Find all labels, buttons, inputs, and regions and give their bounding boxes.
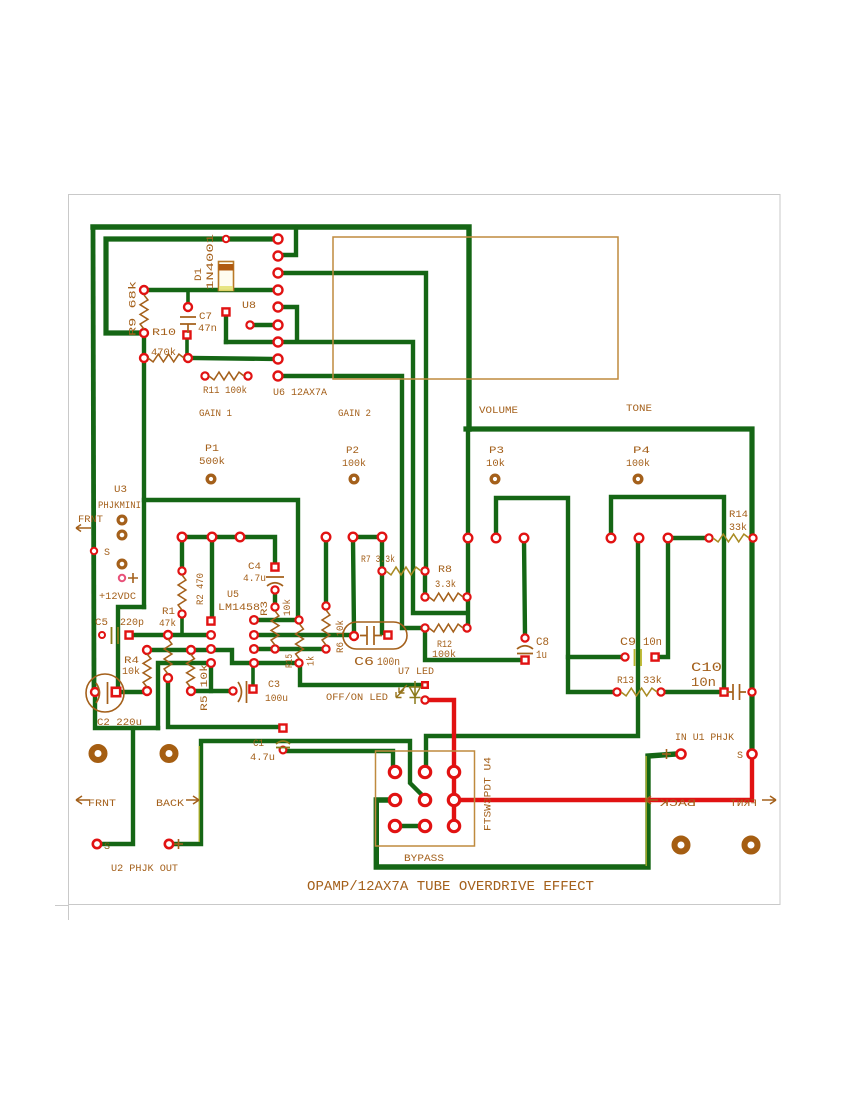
svg-text:C7: C7 (199, 312, 212, 323)
R13 right pad (657, 688, 664, 695)
wire P2 left to R6 top (324, 539, 328, 604)
U4 switch pad r1c2 (419, 766, 430, 777)
capacitor C9 plates (635, 649, 642, 666)
svg-text:U5: U5 (227, 590, 239, 601)
wire net1 top bus (93, 227, 469, 429)
U4 switch pad r1c1 (389, 766, 400, 777)
capacitor C7 plates (180, 317, 196, 333)
svg-text:33k: 33k (643, 675, 662, 687)
svg-text:10n: 10n (643, 637, 662, 649)
arrow FRNT bottom (76, 796, 90, 804)
U3 +12VDC pad (119, 575, 125, 581)
wire net2 second bus to U6 pin1 (106, 239, 278, 333)
U5 pin5 pad (250, 659, 258, 667)
capacitor C2 plates (96, 682, 108, 704)
capacitor C3 plates (238, 681, 247, 703)
svg-text:100k: 100k (626, 458, 650, 470)
wire U5 pin6 row to R6 bottom (255, 647, 324, 651)
C4 bottom pad (271, 586, 278, 593)
svg-text:C4: C4 (248, 562, 261, 573)
capacitor C1 plates (276, 741, 290, 748)
pad net2 mid (223, 236, 229, 242)
C1 square pad (279, 725, 286, 732)
wire switch top-mid up to P4 wiper (426, 541, 638, 769)
C6 left pad (350, 632, 358, 640)
svg-text:S: S (104, 842, 110, 853)
svg-text:VOLUME: VOLUME (479, 406, 518, 417)
svg-text:R7 3.3k: R7 3.3k (361, 554, 395, 566)
mounting hole (675, 839, 688, 852)
R4 top pad (143, 646, 151, 654)
wire C3 square up to U5 pin5 (251, 665, 255, 686)
svg-text:R2 470: R2 470 (196, 573, 207, 605)
wire P1 pad row (183, 535, 239, 539)
wire switch row3 link (399, 824, 422, 828)
svg-text:C10: C10 (691, 661, 722, 675)
U5 pin1 square pad (207, 618, 214, 625)
arrow FRNT top (76, 525, 91, 532)
page corner tick bottom (55, 905, 69, 907)
svg-text:100u: 100u (265, 694, 288, 705)
LED U7 diode symbol (410, 681, 421, 704)
wire OUT pad up and across to switch center (171, 741, 425, 844)
wire C7 square to R10 right pad (185, 337, 189, 355)
U6 pin4 pad (274, 286, 283, 295)
svg-text:47n: 47n (198, 324, 217, 335)
arrow BACK mirrored (645, 796, 658, 804)
U1 S pad (748, 750, 757, 759)
R15 bottom pad (295, 659, 302, 666)
svg-text:LM1458: LM1458 (218, 603, 260, 614)
wire x144 corner down to C2 square (118, 607, 144, 689)
svg-text:+12VDC: +12VDC (99, 592, 136, 603)
U2 S pad (93, 840, 101, 848)
U4 switch pad r3c2 (419, 820, 430, 831)
U4 switch pad r2c1 (389, 794, 400, 805)
P4 shaft mark (634, 475, 642, 483)
wire R15 bottom to LED (300, 665, 421, 685)
T mark IN pad (662, 749, 671, 759)
svg-text:U2 PHJK OUT: U2 PHJK OUT (111, 863, 178, 875)
wire U5 pin8 to R15 top (255, 618, 297, 622)
U6 pin1 pad (274, 235, 283, 244)
page corner tick left (68, 905, 70, 921)
wire U5 pin5 to R15 bottom (254, 661, 297, 665)
wire C2 square to R4 bottom (119, 690, 145, 694)
svg-text:R6 10k: R6 10k (335, 620, 347, 653)
svg-text:C9: C9 (620, 637, 636, 649)
R4 bottom pad (143, 687, 151, 695)
R3 bottom pad (271, 645, 278, 652)
svg-text:R13: R13 (617, 676, 634, 687)
svg-text:500k: 500k (199, 456, 225, 468)
R8 right pad (463, 593, 470, 600)
C5 left pad (99, 632, 105, 638)
R8 left pad (421, 593, 428, 600)
mounting hole (92, 747, 105, 760)
svg-text:4.7u: 4.7u (250, 753, 275, 764)
R10 right pad (184, 354, 192, 362)
R5 top pad (187, 646, 195, 654)
svg-text:GAIN 2: GAIN 2 (338, 409, 371, 420)
resistor R12 zigzag (429, 624, 463, 632)
C2 minus pad (91, 688, 99, 696)
svg-text:C8: C8 (536, 637, 549, 649)
R10 left pad (140, 354, 148, 362)
R2 bottom pad (178, 610, 185, 617)
wire C7 top stub (186, 291, 190, 305)
resistor R2 zigzag (178, 575, 186, 610)
R14 right pad (749, 534, 756, 541)
wire P1 middle to U5 pin1 (210, 539, 214, 619)
wire branch to S pad bottom-left (100, 728, 133, 844)
resistor R3 zigzag (271, 611, 279, 645)
C3 square pad (249, 686, 256, 693)
wire C2 minus down and across (95, 692, 158, 728)
wire D1 row U6 pin4 to R9 top (144, 288, 278, 292)
wire U8 square down to gate row (224, 314, 228, 342)
svg-text:33k: 33k (729, 522, 747, 534)
wire R9-R10 pad column (142, 333, 146, 607)
wire up to U5 pin4 row (158, 663, 209, 728)
P3 pad left (464, 534, 473, 543)
wire P3 wiper jog down to R13 left (496, 498, 614, 692)
svg-text:GAIN 1: GAIN 1 (199, 409, 232, 420)
U5 pin8 pad (250, 616, 258, 624)
U6 pin5 pad (274, 303, 283, 312)
wire R12 left down to C8 square (425, 630, 522, 660)
wire U8 pad to U6 pin6 (250, 323, 278, 327)
R12 left pad (421, 624, 428, 631)
wire gate row y342 to R12 right column (226, 342, 466, 613)
wire C10 right up (750, 692, 754, 697)
resistor R9 zigzag (140, 295, 148, 329)
C1 bottom pad (280, 747, 287, 754)
svg-text:IN U1 PHJK: IN U1 PHJK (675, 733, 734, 744)
svg-text:P4: P4 (633, 446, 650, 457)
U8 round pad (246, 321, 253, 328)
U4 switch pad r2c2 (419, 794, 430, 805)
R1 top pad (164, 631, 172, 639)
svg-text:R11 100k: R11 100k (203, 385, 247, 397)
capacitor C6 plates (360, 626, 382, 645)
resistor R10 zigzag (148, 354, 184, 362)
C7 square pad (183, 331, 190, 338)
U5 pin6 pad (250, 645, 258, 653)
U4 switch pad r1c3 (448, 766, 459, 777)
svg-text:OFF/ON LED: OFF/ON LED (326, 692, 388, 704)
P4 pad left (607, 534, 616, 543)
svg-text:100k: 100k (432, 649, 456, 661)
U6 pin6 pad (274, 321, 283, 330)
P1 pad right (236, 533, 245, 542)
wire C5 square to U5 pin2row (131, 633, 209, 637)
svg-text:3.3k: 3.3k (435, 579, 456, 591)
resistor R5 zigzag (187, 654, 195, 687)
svg-text:10k: 10k (486, 458, 505, 470)
U1 IN tip pad (677, 750, 686, 759)
P1 pad middle (208, 533, 217, 542)
svg-text:OPAMP/12AX7A TUBE OVERDRIVE EF: OPAMP/12AX7A TUBE OVERDRIVE EFFECT (307, 880, 594, 895)
svg-text:R9 68k: R9 68k (128, 281, 140, 336)
U6 pin9 pad (274, 372, 283, 381)
R9 bottom / R10 top pad (140, 329, 148, 337)
wire U6 pin8 to R10 right (190, 358, 278, 359)
wire switch mid-left to IN jack (376, 754, 676, 867)
resistor R1 zigzag (164, 639, 172, 674)
svg-text:R3: R3 (260, 601, 271, 616)
U7 LED round pad (421, 696, 428, 703)
P3 shaft mark (491, 475, 499, 483)
wire P2 right to R7 left / C6 right (380, 539, 384, 633)
U4 switch pad r2c3 (448, 794, 459, 805)
U5 pin2 pad (207, 631, 215, 639)
diode D1 cathode band (219, 264, 234, 271)
capacitor C2 outline circle (86, 674, 124, 712)
C8 square pad (522, 657, 529, 664)
U5 pin3 pad (207, 645, 215, 653)
svg-text:1u: 1u (536, 650, 547, 662)
red wire LED cathode to switch top-right (425, 700, 454, 768)
S pad on left rail (91, 548, 97, 554)
arrow FRNT mirrored (762, 796, 776, 804)
svg-text:U3: U3 (114, 485, 127, 496)
wire C4 pads link (273, 590, 277, 605)
wire U6 pin5 jog (278, 307, 297, 340)
capacitor C5 plates (112, 627, 119, 644)
U4 switch pad r3c3 (448, 820, 459, 831)
wire R7 right to R8 left (423, 573, 427, 594)
svg-text:1N4001: 1N4001 (206, 234, 217, 290)
U3 pad 2 (118, 531, 126, 539)
wire left rail x94 (93, 227, 94, 689)
resistor R15 zigzag (296, 624, 304, 659)
C4 square pad (271, 564, 278, 571)
svg-text:BACK: BACK (660, 799, 696, 810)
capacitor C6 outline stadium (343, 622, 407, 649)
P2 pad right (378, 533, 387, 542)
R13 left pad (613, 688, 620, 695)
wire R13 right to C10 square (661, 690, 720, 694)
svg-text:100k: 100k (342, 458, 366, 470)
svg-text:C5: C5 (95, 618, 108, 629)
page sheet border (69, 195, 781, 905)
svg-text:P1: P1 (205, 444, 219, 455)
C10 square pad (721, 689, 728, 696)
R9 top pad (140, 286, 148, 294)
svg-text:P3: P3 (489, 446, 504, 457)
svg-text:TONE: TONE (626, 404, 652, 415)
P4 pad middle (635, 534, 644, 543)
svg-text:BYPASS: BYPASS (404, 853, 444, 865)
P3 pad middle (492, 534, 501, 543)
resistor R8 zigzag (429, 593, 463, 601)
svg-text:470k: 470k (151, 347, 176, 359)
LED U7 arrows (396, 685, 407, 698)
wire U6 pin9 to R12 left column (278, 376, 421, 628)
svg-text:R15: R15 (285, 654, 296, 668)
R14 left pad (705, 534, 712, 541)
svg-text:FRNT: FRNT (78, 515, 103, 526)
U6 pin7 pad (274, 338, 283, 347)
mounting hole (163, 747, 176, 760)
svg-text:1k: 1k (306, 656, 318, 666)
capacitor C4 plates (266, 577, 284, 586)
wire P2 middle to C6 left pad (353, 539, 354, 632)
svg-text:C3: C3 (268, 680, 280, 691)
U6 pin3 pad (274, 269, 283, 278)
wire supply branch y500 to R15 top (144, 500, 298, 618)
resistor R6 zigzag (322, 610, 330, 645)
R11 left pad (201, 372, 208, 379)
svg-text:FRNT: FRNT (730, 799, 757, 810)
svg-text:R8: R8 (438, 565, 452, 576)
wire U5 pin7 row to C6 left (255, 633, 352, 637)
svg-text:C6: C6 (354, 655, 374, 669)
capacitor C8 plates (517, 646, 533, 654)
U6 pin2 pad (274, 252, 283, 261)
P1 shaft mark (207, 475, 215, 483)
U7 LED square pad (422, 682, 428, 688)
wire U6 pin2 jog to top bus (278, 229, 296, 255)
svg-text:47k: 47k (159, 618, 176, 630)
svg-text:10k: 10k (282, 599, 294, 616)
R11 right pad (244, 372, 251, 379)
wire R4 top row to U5 pin3 (147, 648, 210, 652)
wire U5 pin4 down to C3 row (209, 663, 213, 691)
svg-text:R14: R14 (729, 510, 748, 521)
U6 pin8 pad (274, 355, 283, 364)
C9 square pad (652, 654, 659, 661)
svg-text:PHJKMINI: PHJKMINI (98, 501, 141, 512)
resistor R4 zigzag (143, 654, 151, 687)
svg-text:D1: D1 (194, 268, 205, 281)
P3 pad right (520, 534, 529, 543)
wire C3 row (190, 689, 231, 693)
C8 top pad (521, 634, 528, 641)
wire P3 left rail R8/R12 right (466, 429, 470, 626)
svg-text:4.7u: 4.7u (243, 574, 266, 585)
wire R2 bottom stub (180, 616, 184, 634)
R3 top pad (271, 603, 278, 610)
R7 right pad (421, 567, 428, 574)
R5 bottom pad (187, 687, 195, 695)
svg-text:R10: R10 (152, 328, 176, 339)
arrow BACK bottom (186, 796, 199, 804)
svg-text:S: S (737, 751, 743, 762)
svg-text:C1: C1 (253, 739, 264, 750)
wire branch to C9 left (568, 655, 621, 659)
T mark OUT pad (174, 839, 183, 849)
wire U5 pin3 jog to pin5 (212, 650, 252, 663)
U2 T pad (165, 840, 173, 848)
diode D1 bottom tint (219, 286, 233, 291)
svg-text:FTSW3PDT U4: FTSW3PDT U4 (484, 757, 495, 831)
U3 pad 1 (118, 516, 126, 524)
R1 bottom pad (164, 674, 172, 682)
olive line along IN riser (645, 756, 647, 866)
P2 pad middle (349, 533, 358, 542)
switch U4 outline rectangle (376, 751, 475, 846)
svg-text:C2 220u: C2 220u (97, 718, 142, 729)
capacitor C10 plates (727, 684, 746, 700)
U5 pin4 pad (207, 659, 215, 667)
P2 pad left (322, 533, 331, 542)
T mark +12VDC pad (128, 573, 138, 583)
C6 square pad (384, 632, 391, 639)
U4 switch pad r3c1 (389, 820, 400, 831)
R6 top pad (322, 602, 329, 609)
U5 pin7 pad (250, 631, 258, 639)
mounting hole (745, 839, 758, 852)
R2 top pad (178, 567, 185, 574)
U8 square pad (222, 308, 229, 315)
svg-text:R5 10k: R5 10k (199, 664, 211, 711)
P4 pad right (664, 534, 673, 543)
C2 square pad (112, 688, 120, 696)
C9 left pad (621, 653, 628, 660)
resistor R11 zigzag (209, 372, 244, 380)
resistor R7 zigzag (386, 567, 421, 575)
diode D1 body (219, 262, 234, 291)
svg-text:10k: 10k (122, 666, 140, 678)
wire VOLUME-TONE box (466, 429, 752, 751)
svg-text:S: S (104, 548, 110, 559)
wire P4 pad row to R14 left (668, 536, 708, 540)
svg-text:U8: U8 (242, 301, 256, 312)
svg-text:BACK: BACK (156, 799, 184, 810)
wire U6 pin3 to R7 right (278, 273, 426, 568)
svg-text:R1: R1 (162, 607, 175, 618)
svg-text:U7 LED: U7 LED (398, 667, 434, 678)
wire P4 left jog down to C10 square (611, 497, 724, 688)
wire P1 right jog to C4 square (240, 537, 275, 563)
resistor R13 zigzag (621, 688, 657, 696)
C7 top pad (184, 303, 192, 311)
red wire switch mid-right to IN sleeve (457, 757, 752, 800)
svg-text:P2: P2 (346, 446, 359, 457)
wire P3 right down to C8 top (524, 539, 525, 635)
svg-text:FRNT: FRNT (88, 799, 116, 810)
wire P4 right down to C9 square (659, 540, 668, 657)
tube U6 outline rectangle (333, 237, 618, 379)
R12 right pad (463, 624, 470, 631)
C5 square pad (126, 632, 133, 639)
U3 pad 3 (118, 560, 126, 568)
P2 shaft mark (350, 475, 358, 483)
svg-text:U6 12AX7A: U6 12AX7A (273, 388, 327, 399)
svg-text:220p: 220p (120, 617, 144, 629)
R7 left pad (378, 567, 385, 574)
svg-text:10n: 10n (691, 676, 716, 690)
C3 left pad (229, 687, 236, 694)
R15 top pad (295, 616, 302, 623)
wire P2 pad row (354, 535, 381, 539)
wire P1 left to R2 top (180, 539, 184, 569)
wire R1 bottom down to C1 square (168, 679, 280, 727)
svg-text:R4: R4 (124, 656, 139, 667)
resistor R14 zigzag (713, 534, 749, 542)
C10 right pad (748, 688, 755, 695)
R6 bottom pad (322, 645, 329, 652)
olive line along OUT riser (198, 746, 200, 842)
red wire switch right column link (452, 772, 456, 826)
wire C1 bottom to switch top-left (285, 751, 393, 765)
P1 pad left (178, 533, 187, 542)
svg-text:100n: 100n (377, 657, 400, 669)
